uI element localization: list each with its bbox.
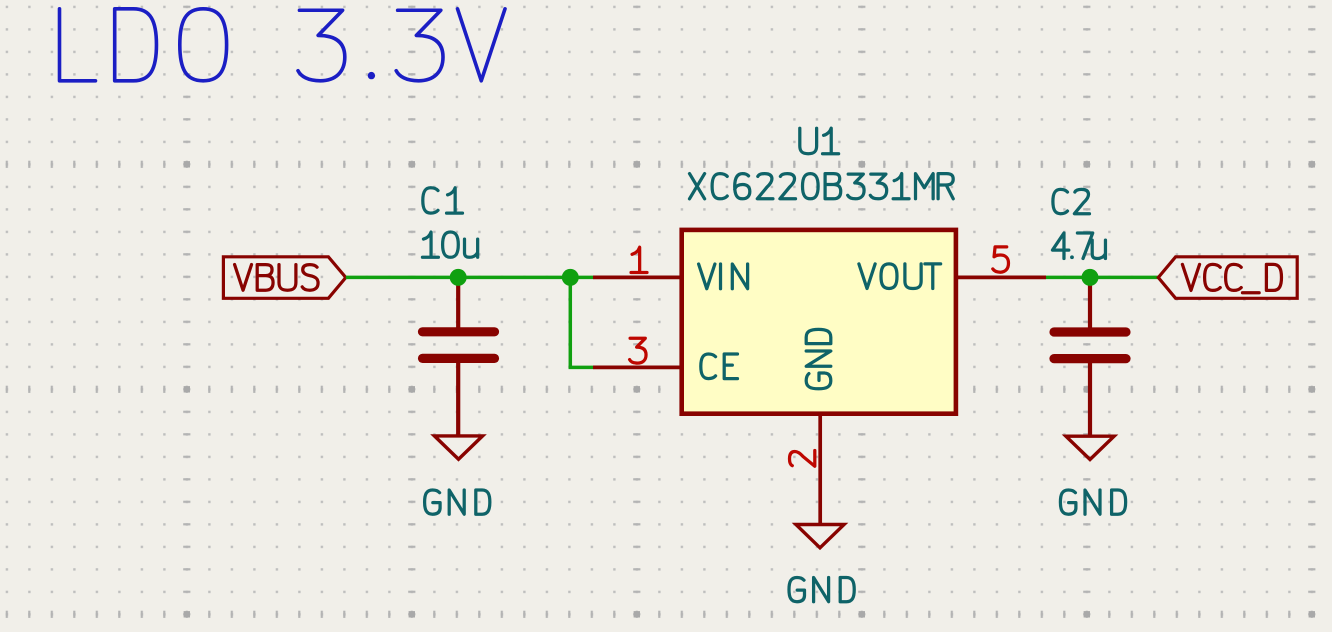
label U1 reference <box>800 128 839 154</box>
junction at C2 <box>1082 269 1099 286</box>
label C2 reference <box>1053 189 1090 213</box>
pin name VIN <box>699 264 748 289</box>
global label VCC_D <box>1158 257 1297 299</box>
pin 1 (VIN) of U1 <box>593 276 682 280</box>
label C1 reference <box>423 188 463 213</box>
regulator U1 body <box>682 230 956 414</box>
junction at C1 <box>450 269 467 286</box>
pin 3 (CE) of U1 <box>593 366 682 370</box>
wire CE branch <box>570 277 593 367</box>
wire VOUT to VCC_D <box>1046 276 1158 280</box>
label GND (U1) <box>789 578 854 602</box>
global label VBUS <box>223 257 345 299</box>
pin number 2 (rotated) <box>790 451 815 467</box>
pin name GND (rotated) <box>806 329 831 388</box>
pin number 5 <box>993 247 1009 272</box>
schematic title "LDO 3.3V" <box>60 9 506 81</box>
capacitor C1 <box>418 277 499 436</box>
junction at CE branch <box>562 269 579 286</box>
ground symbol (U1 pin 2) <box>796 525 844 548</box>
label C1 value 10u <box>422 232 477 257</box>
pin 5 (VOUT) of U1 <box>956 276 1046 280</box>
pin 2 (GND) of U1 <box>818 414 822 525</box>
ground symbol (C1) <box>434 436 482 459</box>
pin name CE <box>701 354 738 379</box>
pin name VOUT <box>859 264 941 289</box>
wire VBUS to VIN <box>346 276 593 280</box>
capacitor C2 <box>1049 277 1130 436</box>
label U1 value XC6220B331MR <box>690 174 954 199</box>
label GND (C2) <box>1060 490 1125 514</box>
ground symbol (C2) <box>1066 436 1114 459</box>
label C2 value 4.7u <box>1053 233 1106 259</box>
pin number 3 <box>630 338 646 363</box>
pin number 1 <box>631 247 647 272</box>
label GND (C1) <box>425 490 490 514</box>
